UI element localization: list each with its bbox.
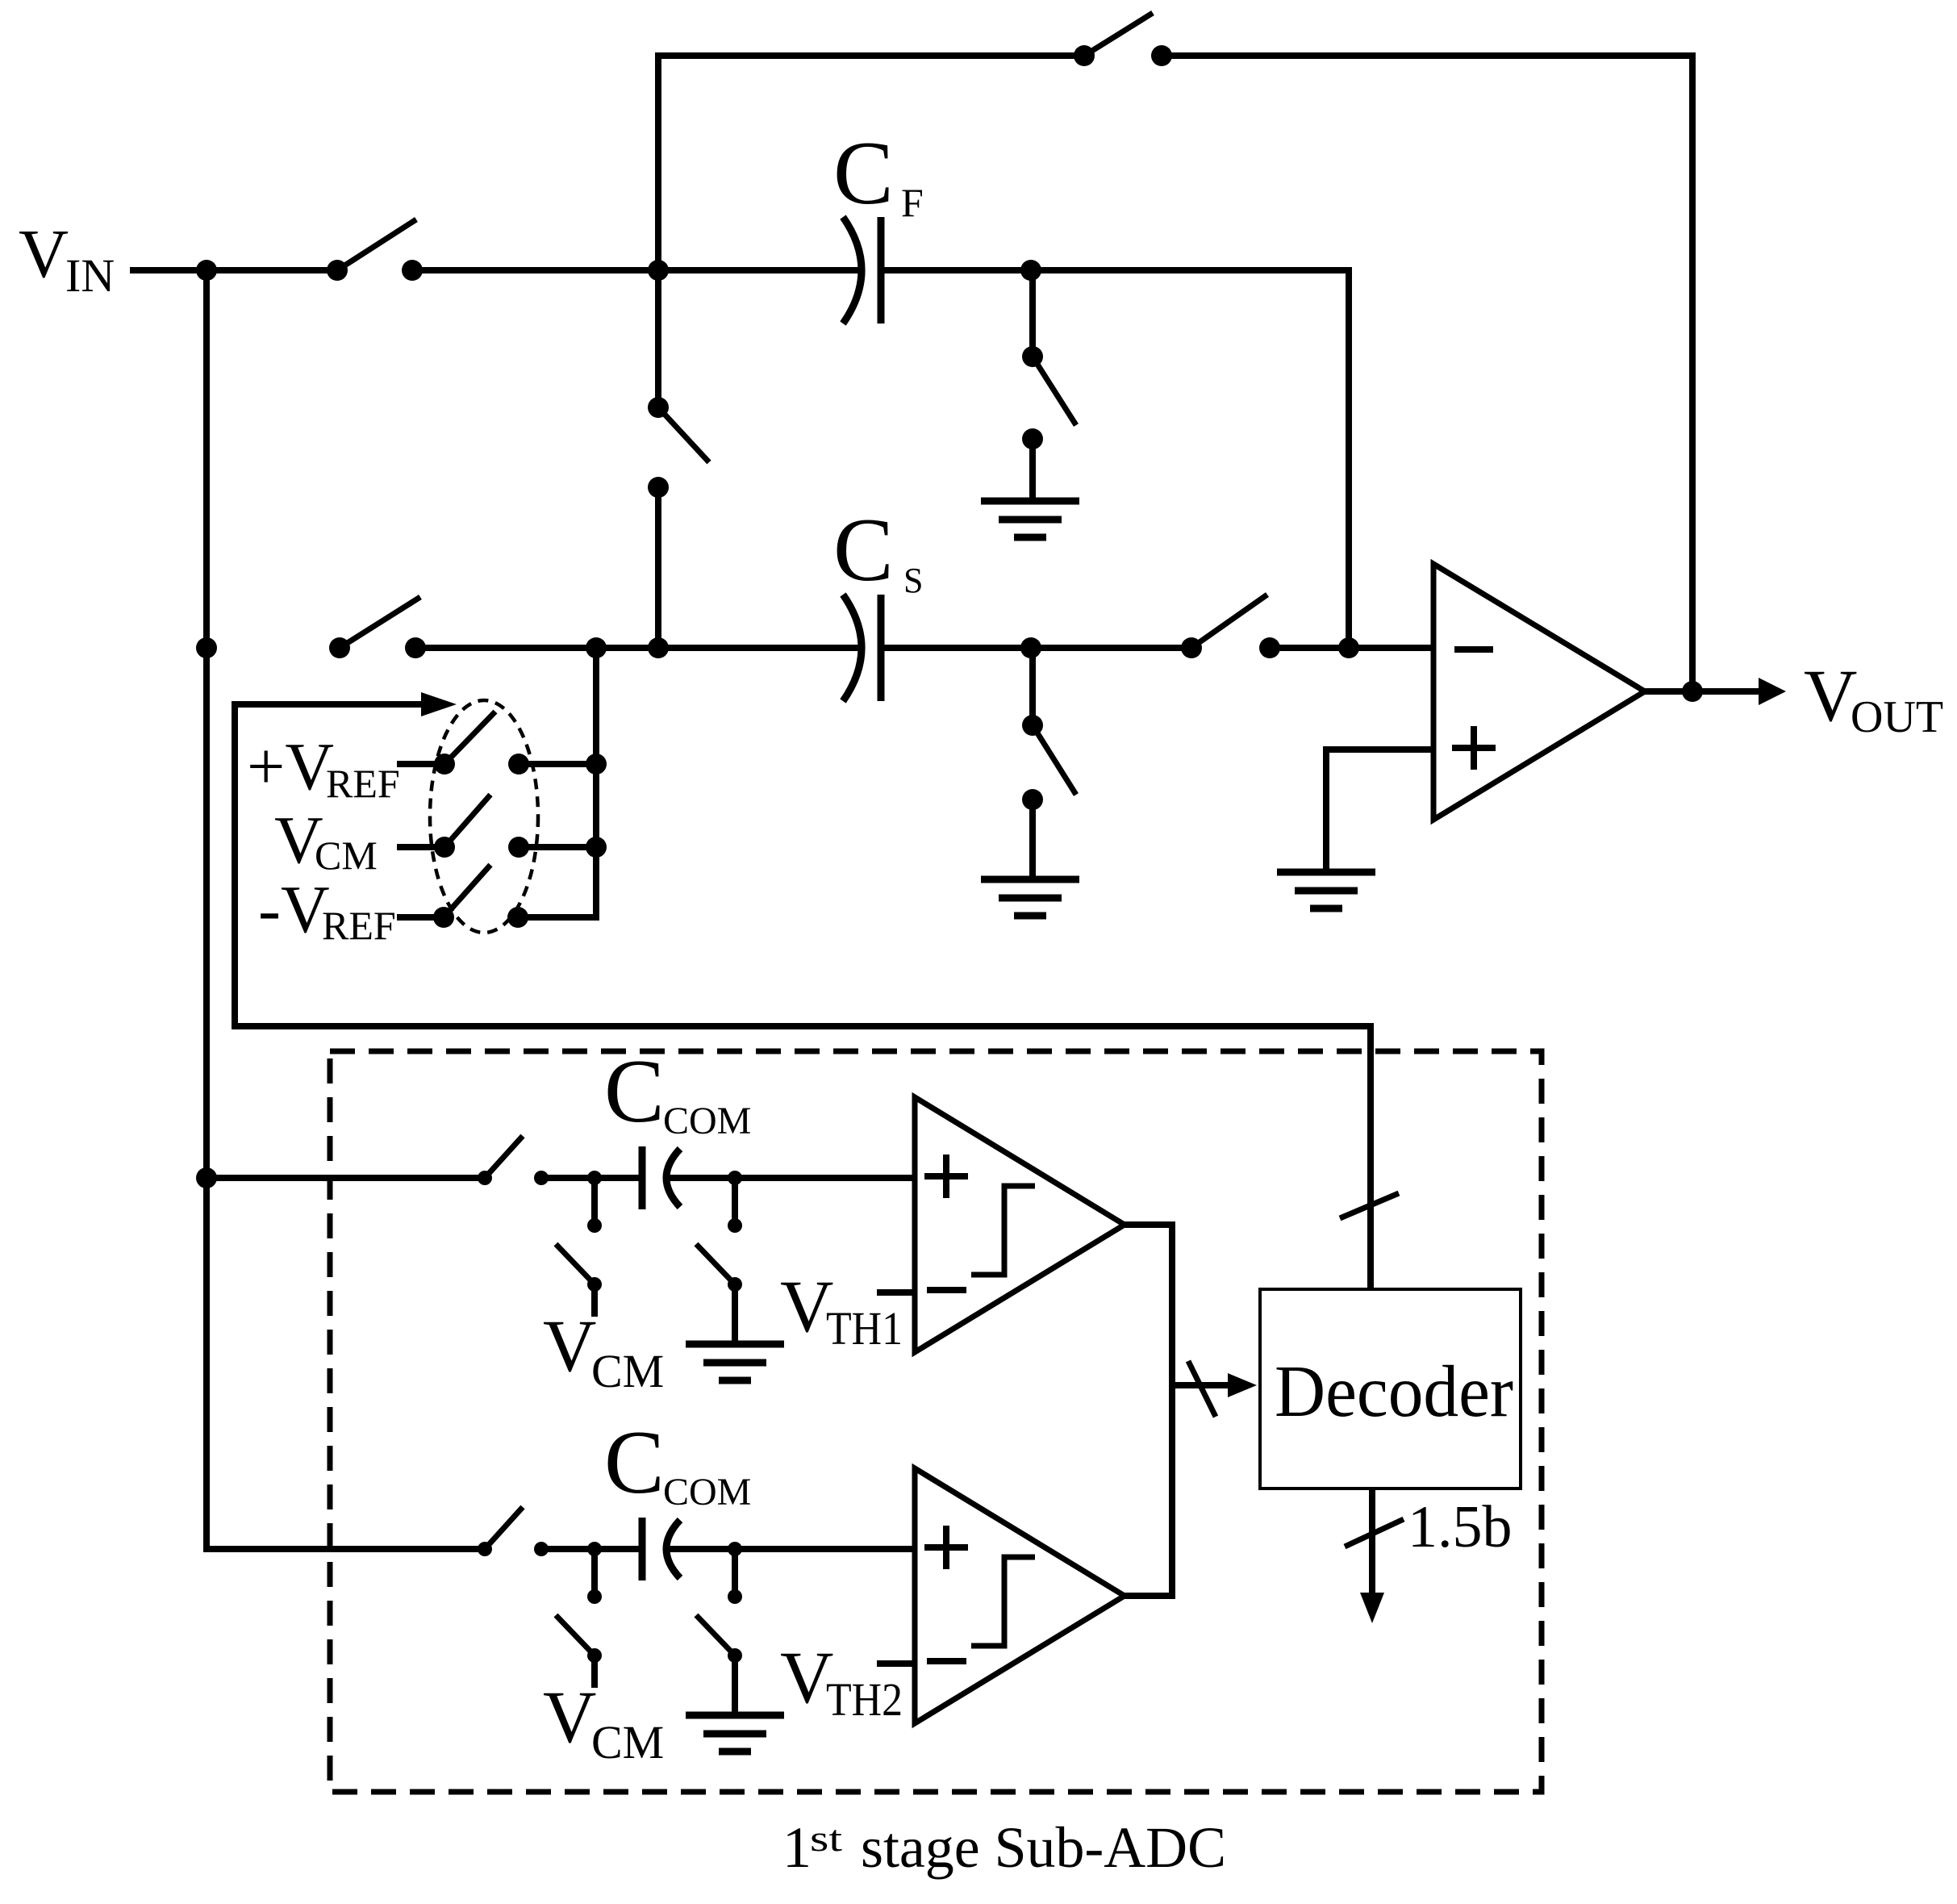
wire VCM stub comp1 bbox=[591, 1284, 598, 1317]
wire CF to node bbox=[881, 267, 1031, 273]
node comp2 left stub contact bbox=[587, 1589, 602, 1604]
wire comp1 left stub bbox=[591, 1178, 598, 1225]
decoder box bbox=[1260, 1289, 1521, 1489]
node comp1 CCOM right junction bbox=[728, 1171, 742, 1185]
svg-text:REF: REF bbox=[326, 761, 400, 806]
wire comp1 output bbox=[1125, 1221, 1175, 1228]
wire decoder input drop bbox=[1367, 1023, 1374, 1289]
ground G2 (below S7) bbox=[981, 879, 1079, 916]
switch S121 (ground to comp1 right) bbox=[696, 1244, 742, 1292]
wire VCM stub comp2 bbox=[591, 1656, 598, 1688]
wire CS to node bbox=[881, 645, 1191, 651]
arrowhead DAC select bbox=[421, 692, 457, 716]
wire comp2 left stub bbox=[591, 1549, 598, 1597]
switch S5 (feedback, top) bbox=[1074, 13, 1172, 66]
bus slash comparator outputs bbox=[1188, 1361, 1216, 1417]
svg-text:REF: REF bbox=[322, 903, 396, 948]
node CF output junction bbox=[1020, 260, 1041, 281]
svg-text:st: st bbox=[810, 1818, 842, 1859]
svg-text:1.5b: 1.5b bbox=[1408, 1494, 1513, 1560]
wire CF node to switch S6 bbox=[1029, 270, 1036, 357]
node comp2 CCOM right junction bbox=[728, 1542, 742, 1556]
wire CCOM to comp1 bbox=[670, 1175, 915, 1181]
ground G4 (comp1) bbox=[686, 1344, 784, 1380]
wire U1 plus to ground bbox=[1323, 746, 1329, 875]
switch S8 (to op-amp inverting input) bbox=[1181, 595, 1280, 658]
svg-text:OUT: OUT bbox=[1851, 692, 1943, 742]
wire row1 to CF bbox=[412, 267, 860, 273]
node row2 junction at x256 bbox=[196, 637, 217, 658]
node VIN junction bbox=[196, 260, 217, 281]
comparator U2 bbox=[915, 1097, 1125, 1352]
switch S122 (ground to comp2 right) bbox=[696, 1615, 742, 1663]
U2 hysteresis symbol bbox=[971, 1186, 1035, 1275]
wire feedback right drop bbox=[1689, 52, 1696, 691]
wire U1 output bbox=[1645, 688, 1759, 695]
U3 plus sign bbox=[924, 1544, 968, 1551]
svg-text:C: C bbox=[604, 1042, 665, 1142]
switch M2 (VCM select) bbox=[434, 795, 529, 858]
wire comparator output bus vertical bbox=[1169, 1225, 1175, 1596]
svg-text:-V: -V bbox=[258, 872, 330, 947]
switch S7 (CS bottom-plate to ground) bbox=[1022, 715, 1076, 810]
node comp2 right stub contact bbox=[728, 1589, 742, 1604]
wire VIN lead bbox=[130, 267, 337, 273]
wire CS node to switch S7 bbox=[1029, 648, 1036, 725]
U3 hysteresis symbol bbox=[971, 1557, 1035, 1646]
switch S4 (between row1 and row2) bbox=[648, 397, 709, 498]
wire feedback riser x816 bbox=[655, 52, 661, 407]
wire VIN column bbox=[203, 270, 210, 1552]
wire feedback top run right bbox=[1162, 52, 1692, 59]
wire comp2 right stub bbox=[732, 1549, 738, 1597]
svg-text:S: S bbox=[903, 561, 923, 600]
svg-text:TH1: TH1 bbox=[826, 1302, 903, 1355]
svg-text:stage Sub-ADC: stage Sub-ADC bbox=[861, 1815, 1226, 1880]
svg-text:1: 1 bbox=[782, 1815, 812, 1880]
ground G5 (comp2) bbox=[686, 1715, 784, 1752]
switch S2 (VIN sampling, row 2) bbox=[329, 597, 426, 658]
node comp1 left stub contact bbox=[587, 1218, 602, 1233]
wire -VREF stub bbox=[397, 914, 444, 921]
capacitor CF bbox=[843, 217, 881, 324]
wire S8 to op-amp bbox=[1270, 645, 1433, 651]
svg-text:F: F bbox=[901, 180, 924, 225]
switch S91 (comp1 input) bbox=[478, 1136, 549, 1185]
svg-text:V: V bbox=[19, 215, 69, 292]
svg-text:IN: IN bbox=[65, 249, 115, 302]
wire comp2 to CCOM bbox=[541, 1546, 641, 1552]
arrowhead decoder output bbox=[1360, 1593, 1384, 1623]
wire VCM stub bbox=[397, 844, 444, 850]
wire decoder output bbox=[1369, 1489, 1375, 1594]
wire feedback top run bbox=[658, 52, 1084, 59]
U2 minus sign bbox=[927, 1287, 966, 1293]
switch S112 (VCM to comp2 left) bbox=[556, 1615, 602, 1663]
switch M1 (+VREF select) bbox=[434, 712, 529, 775]
wire comp1 right stub bbox=[732, 1178, 738, 1225]
svg-text:Decoder: Decoder bbox=[1275, 1351, 1513, 1432]
switch S111 (VCM to comp1 left) bbox=[556, 1244, 602, 1292]
wire corner x1672 drop to inverting node bbox=[1346, 267, 1352, 648]
svg-text:COM: COM bbox=[663, 1100, 751, 1142]
svg-text:CM: CM bbox=[591, 1716, 664, 1768]
U3 minus sign bbox=[927, 1658, 966, 1664]
wire S6 to ground bbox=[1029, 439, 1036, 504]
wire row2 to CS bbox=[415, 645, 860, 651]
svg-text:C: C bbox=[604, 1413, 665, 1513]
wire S4 to row2 bbox=[655, 487, 661, 648]
node CS output junction bbox=[1020, 637, 1041, 658]
wire comp2 output bbox=[1125, 1593, 1175, 1599]
node bus junction +VREF bbox=[586, 754, 607, 775]
U2 plus sign bbox=[924, 1173, 968, 1180]
node comp1 right stub contact bbox=[728, 1218, 742, 1233]
svg-text:V: V bbox=[1804, 654, 1857, 737]
wire comp1 input row bbox=[207, 1175, 485, 1181]
wire comp1 to CCOM bbox=[541, 1175, 641, 1181]
svg-text:COM: COM bbox=[663, 1471, 751, 1514]
capacitor CCOM (comp2) bbox=[642, 1518, 680, 1580]
mux dashed ellipse bbox=[430, 700, 538, 933]
svg-text:C: C bbox=[833, 500, 894, 600]
U1 minus sign bbox=[1454, 646, 1493, 653]
U1 plus sign bbox=[1452, 745, 1496, 751]
wire M3 to bus corner bbox=[518, 914, 596, 921]
node comp1 tap junction bbox=[196, 1167, 217, 1188]
svg-text:C: C bbox=[833, 123, 894, 223]
node output junction bbox=[1682, 681, 1703, 702]
wire ground stub comp2 bbox=[732, 1656, 738, 1718]
switch S1 (VIN sampling, row 1) bbox=[327, 219, 423, 281]
node mux bus top junction bbox=[586, 637, 607, 658]
node row2/x816 junction bbox=[648, 637, 669, 658]
svg-text:V: V bbox=[543, 1676, 596, 1758]
capacitor CS bbox=[843, 595, 881, 701]
wire +VREF stub bbox=[397, 761, 444, 767]
switch M3 (-VREF select) bbox=[433, 865, 528, 928]
svg-text:V: V bbox=[543, 1305, 596, 1387]
wire row1 to corner bbox=[1031, 267, 1349, 273]
arrowhead VOUT bbox=[1759, 678, 1786, 705]
wire ground stub comp1 bbox=[732, 1284, 738, 1347]
wire mux bus bbox=[593, 648, 599, 921]
wire comparator bus to decoder bbox=[1172, 1382, 1229, 1388]
dashed box 1st stage Sub-ADC bbox=[330, 1051, 1542, 1792]
switch S92 (comp2 input) bbox=[478, 1507, 549, 1556]
svg-text:TH2: TH2 bbox=[826, 1673, 903, 1726]
wire comp2 input row bbox=[207, 1546, 485, 1552]
bus slash decoder input bbox=[1340, 1193, 1399, 1218]
wire VTH2 to comp2 minus bbox=[877, 1660, 915, 1667]
switch S6 (CF bottom-plate to ground) bbox=[1022, 346, 1076, 449]
wire M2 to bus bbox=[519, 844, 596, 850]
ground G1 (below S6) bbox=[981, 501, 1079, 537]
wire decoder select feedback run bbox=[235, 1023, 1371, 1029]
svg-text:CM: CM bbox=[315, 833, 378, 878]
wire DAC select arrow run bbox=[235, 701, 423, 708]
wire DAC select riser bbox=[232, 701, 238, 1029]
op-amp U1 bbox=[1433, 564, 1645, 820]
node inverting input junction bbox=[1338, 637, 1359, 658]
svg-text:CM: CM bbox=[591, 1345, 664, 1397]
node comp2 CCOM left junction bbox=[587, 1542, 602, 1556]
comparator U3 bbox=[915, 1468, 1125, 1723]
svg-text:+V: +V bbox=[247, 729, 334, 804]
wire M1 to bus bbox=[519, 761, 596, 767]
ground G3 (U1 non-inverting input) bbox=[1277, 872, 1375, 908]
wire S7 to ground bbox=[1029, 800, 1036, 883]
bus slash decoder output bbox=[1345, 1519, 1404, 1547]
node comp1 CCOM left junction bbox=[587, 1171, 602, 1185]
arrowhead decoder input bbox=[1228, 1373, 1257, 1397]
wire U1 non-inverting input bbox=[1326, 746, 1433, 753]
node row1/x816 junction bbox=[648, 260, 669, 281]
wire CCOM to comp2 bbox=[670, 1546, 915, 1552]
node bus junction VCM bbox=[586, 837, 607, 858]
wire VTH1 to comp1 minus bbox=[877, 1289, 915, 1296]
capacitor CCOM (comp1) bbox=[642, 1146, 680, 1209]
